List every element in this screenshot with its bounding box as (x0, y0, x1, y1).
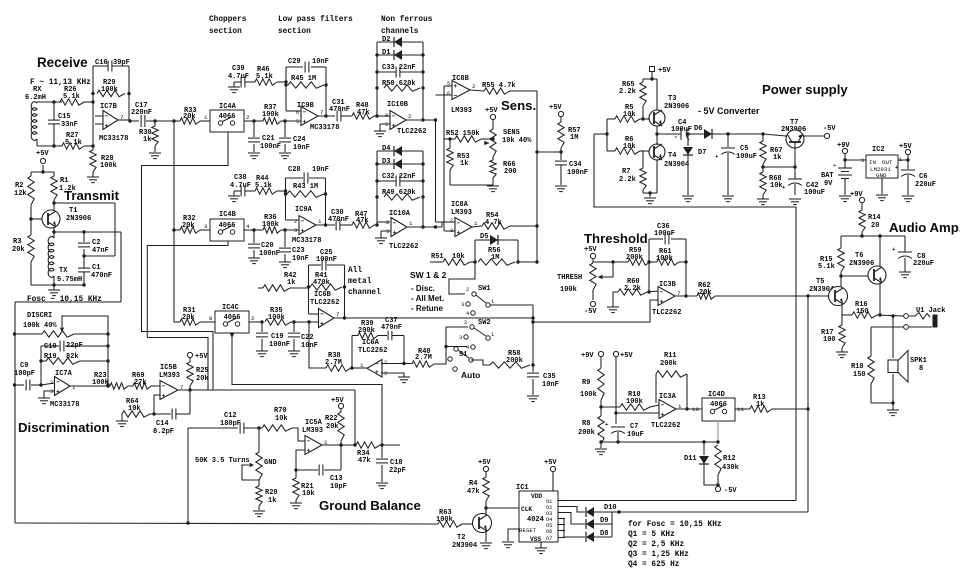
svg-text:4: 4 (246, 223, 250, 230)
svg-text:IC3B: IC3B (659, 281, 677, 289)
svg-text:2.7M: 2.7M (325, 359, 342, 367)
svg-text:IC6B: IC6B (314, 291, 332, 299)
svg-text:100uF: 100uF (736, 153, 757, 161)
svg-text:10pF: 10pF (330, 483, 347, 491)
svg-text:6: 6 (385, 113, 388, 119)
svg-text:R14: R14 (868, 214, 881, 222)
svg-text:2: 2 (408, 113, 412, 120)
svg-text:+: + (457, 229, 461, 236)
svg-text:2: 2 (251, 315, 255, 322)
svg-text:3: 3 (450, 228, 453, 234)
svg-text:C15: C15 (58, 113, 71, 121)
svg-text:IC5A: IC5A (305, 419, 323, 427)
svg-text:C5: C5 (740, 145, 748, 153)
svg-text:2: 2 (450, 218, 453, 224)
svg-text:2: 2 (294, 219, 297, 225)
svg-text:10: 10 (692, 406, 699, 413)
svg-text:−: − (307, 438, 311, 445)
svg-text:R20: R20 (265, 489, 278, 497)
svg-text:- Retune: - Retune (411, 304, 444, 313)
svg-text:2N3906: 2N3906 (66, 215, 91, 223)
svg-text:R49 620k: R49 620k (382, 189, 416, 197)
svg-text:5.1k: 5.1k (63, 93, 80, 101)
svg-text:IC7A: IC7A (55, 370, 73, 378)
svg-text:27k: 27k (134, 379, 147, 387)
svg-text:3: 3 (50, 389, 53, 395)
svg-text:Ground Balance: Ground Balance (319, 498, 421, 513)
svg-text:IC6A: IC6A (362, 339, 380, 347)
svg-text:D7: D7 (698, 149, 706, 157)
svg-text:20: 20 (871, 222, 879, 230)
svg-text:20k: 20k (12, 246, 25, 254)
svg-text:+5V: +5V (36, 150, 49, 158)
svg-text:C35: C35 (543, 373, 556, 381)
svg-text:10nF: 10nF (542, 381, 559, 389)
svg-text:+5V: +5V (584, 246, 597, 254)
svg-text:4066: 4066 (219, 222, 236, 230)
svg-text:200: 200 (504, 168, 517, 176)
svg-text:Q4 = 625 Hz: Q4 = 625 Hz (628, 561, 680, 569)
svg-text:100k: 100k (100, 162, 117, 170)
svg-text:10k: 10k (452, 253, 465, 261)
svg-text:GND: GND (264, 459, 277, 467)
svg-text:100nF: 100nF (269, 341, 290, 349)
svg-text:2N3904: 2N3904 (452, 542, 477, 550)
svg-text:100k: 100k (626, 398, 643, 406)
svg-text:3: 3 (204, 223, 208, 230)
svg-text:4.7uF: 4.7uF (228, 73, 249, 81)
svg-text:47k: 47k (358, 457, 371, 465)
svg-text:+: + (301, 227, 305, 234)
svg-text:IC10A: IC10A (389, 210, 411, 218)
svg-text:Q2 = 2,5 KHz: Q2 = 2,5 KHz (628, 541, 684, 549)
svg-text:47k: 47k (467, 488, 480, 496)
svg-text:R50 620k: R50 620k (382, 80, 416, 88)
svg-text:-5V: -5V (584, 308, 597, 316)
svg-text:BAT: BAT (821, 172, 834, 180)
svg-text:5.1k: 5.1k (256, 73, 273, 81)
svg-text:R4: R4 (469, 480, 477, 488)
svg-text:D1: D1 (382, 49, 390, 57)
svg-text:1: 1 (204, 114, 208, 121)
svg-text:TLC2262: TLC2262 (358, 347, 387, 355)
svg-text:8: 8 (209, 315, 213, 322)
svg-text:6: 6 (447, 91, 450, 97)
svg-text:R8: R8 (582, 420, 590, 428)
svg-text:VDD: VDD (531, 493, 542, 500)
svg-text:section: section (278, 28, 311, 36)
svg-text:200k: 200k (626, 254, 643, 262)
svg-text:6.2mH: 6.2mH (25, 94, 46, 102)
svg-text:2N3904: 2N3904 (664, 161, 689, 169)
svg-text:100pF: 100pF (14, 370, 35, 378)
svg-text:4066: 4066 (710, 401, 727, 409)
svg-text:IC5B: IC5B (160, 364, 178, 372)
svg-text:2.2k: 2.2k (624, 285, 641, 293)
svg-text:-5V: -5V (724, 487, 737, 495)
svg-text:IN: IN (869, 159, 876, 166)
svg-text:−: − (661, 402, 665, 409)
svg-text:−: − (320, 311, 324, 318)
svg-text:10k: 10k (623, 111, 636, 119)
svg-text:Power supply: Power supply (762, 82, 848, 97)
svg-text:2: 2 (246, 114, 250, 121)
svg-text:+5V: +5V (478, 459, 491, 467)
svg-text:+: + (454, 83, 458, 90)
svg-text:1k: 1k (773, 154, 781, 162)
svg-text:1k: 1k (756, 401, 764, 409)
svg-text:C21: C21 (262, 135, 275, 143)
svg-text:D11: D11 (684, 455, 697, 463)
svg-text:1: 1 (491, 332, 494, 338)
svg-text:−: − (454, 92, 458, 99)
svg-text:8: 8 (919, 365, 923, 373)
svg-text:- 5V Converter: - 5V Converter (698, 106, 760, 116)
svg-text:+5V: +5V (549, 104, 562, 112)
svg-text:100nF: 100nF (654, 230, 675, 238)
svg-text:1k: 1k (287, 279, 295, 287)
svg-text:10k: 10k (302, 490, 315, 498)
svg-text:R1: R1 (60, 177, 68, 185)
svg-text:R7: R7 (622, 168, 630, 176)
svg-text:100k: 100k (580, 391, 597, 399)
svg-text:LM393: LM393 (451, 107, 472, 115)
svg-text:10k: 10k (770, 182, 783, 190)
svg-text:C12: C12 (224, 412, 237, 420)
svg-text:3: 3 (861, 158, 864, 164)
svg-text:−: − (303, 109, 307, 116)
svg-text:C9: C9 (20, 362, 28, 370)
svg-text:20k: 20k (196, 375, 209, 383)
svg-text:T4: T4 (668, 152, 676, 160)
svg-text:+: + (56, 388, 60, 395)
svg-text:180pF: 180pF (220, 420, 241, 428)
svg-text:2: 2 (472, 83, 476, 90)
svg-text:10k: 10k (128, 405, 141, 413)
svg-text:R45 1M: R45 1M (291, 75, 316, 83)
svg-text:+5V: +5V (620, 352, 633, 360)
svg-text:VSS: VSS (530, 536, 541, 543)
svg-text:R9: R9 (582, 379, 590, 387)
svg-text:100nF: 100nF (260, 143, 281, 151)
svg-text:1k: 1k (143, 136, 151, 144)
svg-text:Audio Amp.: Audio Amp. (889, 220, 960, 235)
svg-text:20k: 20k (182, 314, 195, 322)
svg-text:C18: C18 (390, 459, 403, 467)
svg-text:R43 1M: R43 1M (293, 183, 318, 191)
svg-text:100nF: 100nF (316, 256, 337, 264)
svg-text:470k: 470k (313, 279, 330, 287)
svg-text:100k: 100k (262, 221, 279, 229)
svg-text:C33 22nF: C33 22nF (382, 64, 416, 72)
svg-text:5: 5 (296, 119, 299, 125)
svg-text:220uF: 220uF (913, 260, 934, 268)
svg-text:R51: R51 (431, 253, 444, 261)
svg-text:9V: 9V (824, 180, 833, 188)
svg-text:22pF: 22pF (66, 342, 83, 350)
svg-text:3: 3 (384, 371, 387, 377)
svg-text:20k: 20k (182, 222, 195, 230)
svg-text:−: − (301, 218, 305, 225)
svg-text:Sens.: Sens. (501, 98, 536, 113)
svg-text:3: 3 (459, 335, 462, 341)
svg-text:C16: C16 (95, 59, 108, 67)
svg-text:5.1k: 5.1k (255, 182, 272, 190)
svg-text:SW2: SW2 (478, 319, 491, 327)
svg-text:47nF: 47nF (92, 247, 109, 255)
svg-text:+: + (162, 392, 166, 399)
svg-text:TLC2262: TLC2262 (310, 299, 339, 307)
svg-text:O7: O7 (546, 536, 552, 542)
svg-text:TLC2262: TLC2262 (397, 128, 426, 136)
svg-text:Discrimination: Discrimination (18, 420, 110, 435)
svg-text:470nF: 470nF (329, 106, 350, 114)
svg-text:82k: 82k (66, 353, 79, 361)
svg-text:IC8A: IC8A (451, 201, 469, 209)
svg-text:39pF: 39pF (113, 59, 130, 67)
svg-text:+: + (303, 118, 307, 125)
svg-text:100k: 100k (101, 86, 118, 94)
svg-text:+5V: +5V (658, 67, 671, 75)
svg-text:100k: 100k (92, 379, 109, 387)
svg-text:THRESH: THRESH (557, 274, 582, 282)
svg-text:10nF: 10nF (292, 255, 309, 263)
svg-text:SPK1: SPK1 (910, 357, 927, 365)
svg-text:+: + (782, 184, 786, 191)
svg-text:−: − (457, 220, 461, 227)
svg-text:R3: R3 (13, 238, 21, 246)
svg-text:T2: T2 (457, 534, 465, 542)
svg-text:7: 7 (336, 311, 340, 318)
svg-text:MC33178: MC33178 (310, 124, 339, 132)
svg-text:5.75mH: 5.75mH (57, 276, 82, 284)
svg-text:+: + (892, 246, 896, 253)
svg-text:1k: 1k (268, 497, 276, 505)
svg-text:2N3906: 2N3906 (664, 103, 689, 111)
svg-text:4: 4 (466, 311, 469, 317)
svg-text:+: + (392, 122, 396, 129)
svg-text:+9V: +9V (581, 352, 594, 360)
svg-text:R52 150k: R52 150k (446, 130, 480, 138)
svg-text:10k: 10k (275, 415, 288, 423)
svg-text:200k: 200k (358, 327, 375, 335)
svg-text:+: + (393, 229, 397, 236)
svg-text:100uF: 100uF (804, 189, 825, 197)
svg-text:*: * (674, 135, 677, 142)
svg-text:GND: GND (876, 172, 887, 179)
svg-text:D10: D10 (604, 504, 617, 512)
svg-text:2: 2 (466, 287, 469, 293)
svg-text:- All Met.: - All Met. (411, 294, 444, 303)
svg-text:10uF: 10uF (627, 431, 644, 439)
svg-text:D4: D4 (382, 145, 390, 153)
svg-text:Q3 = 1,25 KHz: Q3 = 1,25 KHz (628, 551, 689, 559)
svg-text:R55 4.7k: R55 4.7k (482, 82, 516, 90)
svg-text:+: + (320, 320, 324, 327)
svg-text:2N3906: 2N3906 (849, 260, 874, 268)
svg-text:1M: 1M (570, 134, 578, 142)
svg-text:Auto: Auto (461, 370, 480, 380)
svg-text:20k: 20k (183, 113, 196, 121)
svg-text:LM393: LM393 (302, 427, 323, 435)
svg-text:4.7uF: 4.7uF (230, 182, 251, 190)
svg-text:+: + (895, 164, 899, 171)
svg-text:200k: 200k (660, 360, 677, 368)
svg-text:100k: 100k (268, 314, 285, 322)
svg-text:6: 6 (296, 110, 299, 116)
svg-text:4066: 4066 (219, 113, 236, 121)
svg-text:All: All (348, 267, 362, 275)
svg-text:5.1k: 5.1k (65, 139, 82, 147)
svg-text:+: + (375, 369, 379, 376)
svg-text:C23: C23 (292, 247, 305, 255)
svg-text:channel: channel (348, 289, 381, 297)
svg-text:1: 1 (318, 218, 322, 225)
svg-text:IC10B: IC10B (387, 101, 409, 109)
svg-text:for Fosc = 10,15 KHz: for Fosc = 10,15 KHz (628, 521, 722, 529)
svg-text:22pF: 22pF (389, 467, 406, 475)
svg-text:200k: 200k (578, 429, 595, 437)
svg-text:470nF: 470nF (328, 216, 349, 224)
svg-text:220uF: 220uF (915, 181, 936, 189)
svg-text:1: 1 (491, 299, 494, 305)
svg-text:3: 3 (294, 228, 297, 234)
svg-text:section: section (209, 28, 242, 36)
svg-text:IC4B: IC4B (219, 211, 237, 219)
svg-text:+: + (105, 122, 109, 129)
svg-text:C28: C28 (288, 166, 301, 174)
svg-text:3: 3 (461, 302, 464, 308)
svg-text:SENS: SENS (503, 129, 520, 137)
svg-text:10nF: 10nF (312, 58, 329, 66)
svg-text:C2: C2 (92, 239, 100, 247)
svg-text:50K 3.5 Turns: 50K 3.5 Turns (195, 457, 250, 465)
svg-text:channels: channels (381, 28, 419, 36)
svg-text:4024: 4024 (527, 516, 544, 524)
svg-text:−: − (56, 379, 60, 386)
svg-text:+5V: +5V (485, 107, 498, 115)
svg-text:100k 40%: 100k 40% (23, 322, 57, 330)
svg-text:RX: RX (33, 86, 42, 94)
svg-text:Fosc ~ 10,15 KHz: Fosc ~ 10,15 KHz (27, 296, 102, 304)
svg-text:R11: R11 (664, 352, 677, 360)
svg-text:MC33178: MC33178 (50, 401, 79, 409)
svg-text:T1: T1 (69, 207, 77, 215)
svg-text:CLK: CLK (521, 506, 532, 513)
svg-text:−: − (375, 361, 379, 368)
svg-text:+: + (660, 298, 664, 305)
svg-text:RESET: RESET (519, 527, 537, 534)
svg-text:IC2: IC2 (872, 146, 885, 154)
svg-text:MC33178: MC33178 (99, 135, 128, 143)
svg-text:47k: 47k (357, 109, 370, 117)
svg-text:DISCRI: DISCRI (27, 312, 52, 320)
svg-text:C1: C1 (92, 264, 100, 272)
svg-text:Low pass filters: Low pass filters (278, 16, 353, 24)
svg-text:100k: 100k (656, 255, 673, 263)
svg-text:1: 1 (72, 384, 76, 391)
svg-text:150: 150 (856, 308, 869, 316)
svg-text:Receive: Receive (37, 55, 88, 70)
svg-text:Transmit: Transmit (64, 188, 120, 203)
svg-text:−: − (393, 220, 397, 227)
svg-text:−: − (660, 289, 664, 296)
svg-text:C39: C39 (232, 65, 245, 73)
svg-text:C24: C24 (293, 136, 306, 144)
svg-text:+: + (715, 153, 719, 160)
svg-text:O6: O6 (546, 529, 552, 535)
svg-text:C19: C19 (271, 333, 284, 341)
svg-text:OUT: OUT (882, 159, 893, 166)
svg-text:T6: T6 (855, 252, 863, 260)
svg-text:Non ferrous: Non ferrous (381, 16, 433, 24)
svg-text:+5V: +5V (899, 143, 912, 151)
svg-text:150: 150 (853, 371, 866, 379)
svg-text:100: 100 (823, 336, 836, 344)
svg-text:10k 40%: 10k 40% (502, 137, 532, 145)
svg-text:2.7M: 2.7M (415, 354, 432, 362)
svg-text:D2: D2 (382, 36, 390, 44)
svg-text:TX: TX (59, 267, 68, 275)
svg-text:TLC2262: TLC2262 (651, 422, 680, 430)
svg-text:IC9A: IC9A (295, 206, 313, 214)
svg-text:LM393: LM393 (159, 372, 180, 380)
svg-text:1M: 1M (491, 254, 499, 262)
svg-text:+5V: +5V (331, 397, 344, 405)
svg-text:+: + (605, 421, 609, 428)
svg-text:5: 5 (385, 122, 388, 128)
svg-text:R19: R19 (44, 353, 57, 361)
svg-text:4.7k: 4.7k (485, 219, 502, 227)
svg-text:- Disc.: - Disc. (411, 284, 435, 293)
svg-text:IC3A: IC3A (659, 393, 677, 401)
svg-text:+: + (661, 411, 665, 418)
svg-text:2: 2 (386, 220, 389, 226)
svg-text:TLC2262: TLC2262 (652, 309, 681, 317)
svg-text:C34: C34 (569, 161, 582, 169)
svg-text:+: + (833, 162, 837, 169)
svg-text:2: 2 (464, 320, 467, 326)
svg-text:C22: C22 (301, 334, 314, 342)
svg-text:C13: C13 (330, 475, 343, 483)
svg-text:100nF: 100nF (259, 250, 280, 258)
svg-text:Choppers: Choppers (209, 16, 247, 24)
svg-text:200k: 200k (506, 357, 523, 365)
svg-text:R12: R12 (723, 455, 736, 463)
svg-text:C20: C20 (261, 242, 274, 250)
svg-text:3: 3 (386, 229, 389, 235)
svg-text:470nF: 470nF (381, 324, 402, 332)
svg-text:R25: R25 (196, 367, 209, 375)
svg-text:2.2k: 2.2k (619, 176, 636, 184)
svg-text:100nF: 100nF (567, 169, 588, 177)
svg-text:1: 1 (409, 220, 413, 227)
svg-text:12k: 12k (14, 190, 27, 198)
svg-text:−: − (392, 113, 396, 120)
svg-text:C6: C6 (919, 173, 927, 181)
svg-text:R22: R22 (325, 415, 338, 423)
svg-text:T3: T3 (668, 95, 676, 103)
svg-text:10nF: 10nF (312, 166, 329, 174)
svg-text:LM393: LM393 (451, 209, 472, 217)
svg-text:+5V: +5V (195, 353, 208, 361)
svg-text:R2: R2 (15, 182, 23, 190)
svg-text:T5: T5 (816, 278, 824, 286)
svg-text:Threshold: Threshold (584, 231, 648, 246)
svg-text:-5V: -5V (823, 125, 836, 133)
svg-text:SW1: SW1 (478, 285, 491, 293)
svg-text:8.2pF: 8.2pF (153, 428, 174, 436)
